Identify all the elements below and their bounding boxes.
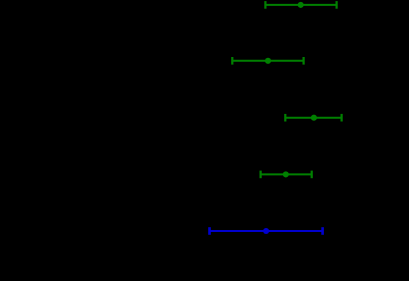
error bar 3 (green) [285,114,341,122]
right cap [336,1,338,9]
left cap [264,1,266,9]
error bar 1 (green) [265,1,336,9]
center marker [298,2,304,8]
error bar 2 (green) [232,57,303,65]
error bar 5 (blue) [210,227,323,235]
error bar 4 (green) [261,171,312,179]
wire: horizontal CI line [265,4,336,6]
